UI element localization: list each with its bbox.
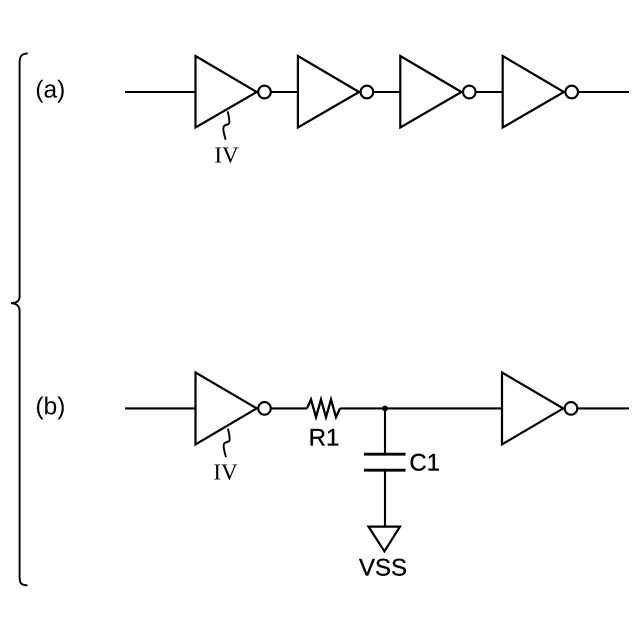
inverter 2 row b	[502, 373, 563, 445]
output bubble 2 row b	[565, 402, 578, 415]
wire capacitor to ground	[384, 470, 386, 527]
output bubble 1 row a	[258, 86, 271, 99]
output bubble 3 row a	[463, 86, 476, 99]
label (b)	[37, 397, 64, 420]
label (a)	[37, 80, 64, 103]
inverter 3 row a	[400, 56, 461, 128]
left curly brace	[11, 53, 28, 585]
inverter 2 row a	[298, 56, 359, 128]
output bubble 4 row a	[565, 86, 578, 99]
resistor R1 zigzag	[307, 400, 340, 418]
wire row b	[125, 407, 307, 409]
leader squiggle IV row b	[224, 429, 230, 458]
ground symbol VSS	[369, 527, 401, 552]
label R1	[311, 429, 339, 446]
inverter 4 row a	[503, 56, 564, 128]
wire node to capacitor	[384, 408, 386, 454]
leader squiggle IV row a	[223, 111, 229, 140]
label C1	[411, 454, 439, 471]
wire row b right of resistor	[340, 407, 629, 409]
label VSS	[359, 559, 406, 576]
node junction dot	[382, 406, 388, 412]
label IV row b	[214, 464, 237, 479]
output bubble 2 row a	[361, 86, 374, 99]
inverter 1 row b	[196, 373, 257, 445]
wire row a	[125, 91, 629, 93]
output bubble 1 row b	[258, 402, 271, 415]
capacitor C1 bottom plate	[364, 469, 406, 472]
capacitor C1 top plate	[364, 453, 406, 456]
label IV row a	[215, 147, 238, 162]
inverter 1 row a	[196, 56, 257, 128]
